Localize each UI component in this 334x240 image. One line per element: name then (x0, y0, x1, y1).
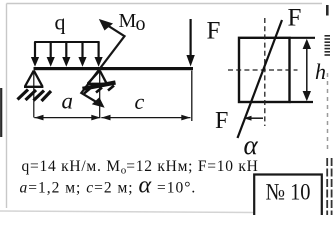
svg-text:α: α (244, 130, 259, 160)
svg-text:a=1,2 м; c=2 м; α =10°.: a=1,2 м; c=2 м; α =10°. (20, 173, 197, 199)
given data text line 1 (22, 158, 259, 177)
roller support B (middle) (87, 71, 108, 118)
dimension a (34, 115, 100, 121)
svg-text:a: a (62, 89, 74, 114)
label alpha (diagram) (244, 130, 259, 160)
label c (135, 89, 145, 114)
dimension h (303, 39, 311, 101)
dimension c (101, 71, 192, 122)
label № 10 (266, 180, 311, 206)
force F on beam (186, 19, 194, 67)
pin support A (left) (24, 71, 43, 118)
angle alpha arrow (244, 116, 264, 121)
label F (bottom of inclined line) (215, 108, 228, 134)
label h (315, 59, 326, 84)
svg-text:F: F (215, 108, 228, 134)
inclined force line F-F (238, 20, 283, 138)
svg-text:№ 10: № 10 (266, 180, 311, 206)
distributed load q (31, 42, 103, 67)
stress element square (239, 38, 315, 102)
svg-text:c: c (135, 89, 145, 114)
label a (62, 89, 74, 114)
centerline horizontal (dashed) (228, 69, 298, 71)
label F (top of inclined line) (288, 5, 302, 32)
given data text line 2 (20, 173, 197, 199)
box for problem number (254, 175, 322, 216)
svg-text:q: q (55, 10, 66, 35)
svg-text:F: F (207, 18, 221, 45)
svg-text:М: М (119, 10, 137, 32)
svg-text:F: F (288, 5, 302, 32)
centerline vertical (dashed) (264, 18, 266, 126)
svg-text:о: о (136, 13, 146, 35)
hatching under support A (18, 90, 52, 102)
label q (55, 10, 66, 35)
svg-text:h: h (315, 59, 326, 84)
moment M_O zigzag arrow (81, 20, 124, 107)
label F (beam force) (207, 18, 221, 45)
hatched ground bar under support B (83, 83, 116, 94)
beam (34, 67, 194, 70)
label M_O (119, 10, 146, 35)
